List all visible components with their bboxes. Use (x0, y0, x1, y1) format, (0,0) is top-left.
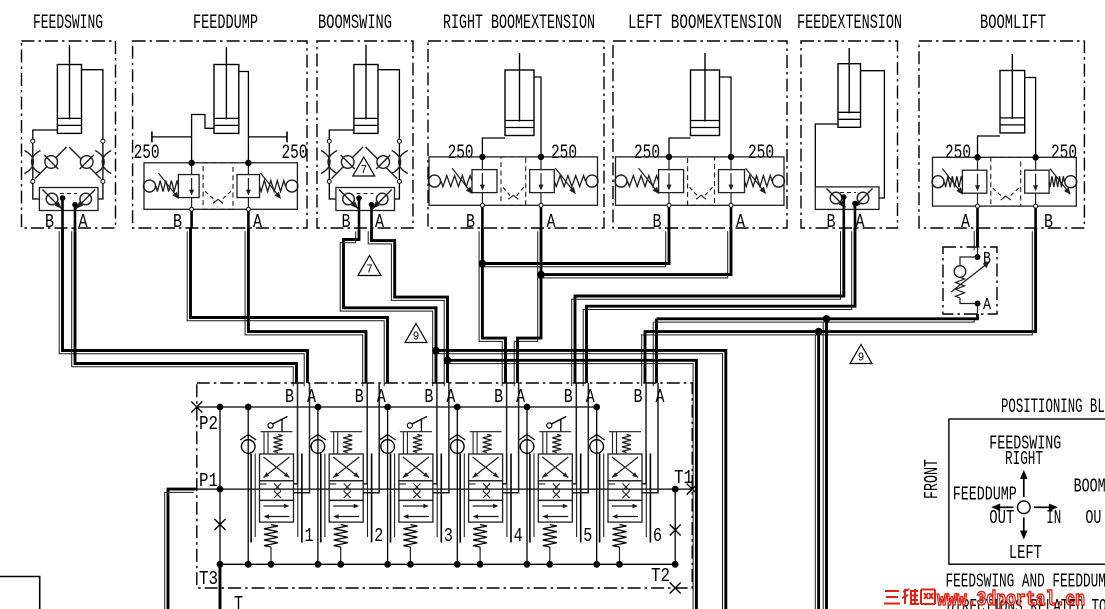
work port line A section 3 (433, 383, 449, 493)
crossed arrows top box section 2 (333, 457, 359, 478)
adjust arrow left LEFT BOOMEXTENSION (639, 168, 658, 192)
warning triangle 9 right (850, 345, 872, 364)
check valve lowering valve (954, 247, 977, 314)
drain line section 3 (409, 547, 411, 564)
relief cartridge right RIGHT BOOMEXTENSION (530, 170, 555, 193)
centering spring top section 4 (483, 435, 492, 453)
side rails section 5 (529, 454, 531, 543)
check valve in box left BOOMSWING (339, 190, 358, 209)
svg-text:T3: T3 (199, 568, 218, 590)
svg-text:FEEDSWING: FEEDSWING (33, 12, 103, 35)
right rail BOOMSWING (398, 143, 400, 180)
wire FEEDSWING B to bank A1 (63, 228, 308, 383)
junction drain section 3 (407, 561, 414, 568)
relief cartridge left LEFT BOOMEXTENSION (659, 170, 684, 193)
wire cylinder head-end to box FEEDEXTENSION (861, 71, 885, 198)
junction right port BOOMLIFT (1032, 154, 1038, 160)
wire branch to sheet2 upper (825, 319, 828, 609)
side rails section 3 (390, 454, 392, 543)
plug X right internal (670, 525, 681, 536)
port stub B RIGHT BOOMEXTENSION (481, 207, 484, 228)
adjust arrow right FEEDDUMP (261, 173, 280, 197)
junction branch upper (823, 315, 831, 323)
wire FEEDEXTENSION B to bank B5 (575, 228, 844, 383)
return spring section 6 (613, 525, 627, 547)
node left port bottom LEFT BOOMEXTENSION (667, 203, 671, 207)
flow arrows bottom box section 2 (333, 505, 357, 507)
junction drain section 6 (616, 561, 623, 568)
pilot cross lines LEFT BOOMEXTENSION (690, 187, 699, 197)
spool body section 4 (469, 454, 503, 481)
wire BOOMSWING B to bank B3 (344, 228, 437, 383)
node lower-right BOOMSWING (397, 179, 401, 183)
shuttle box BOOMSWING (336, 188, 395, 211)
node left port bottom RIGHT BOOMEXTENSION (480, 203, 484, 207)
centering spring top section 6 (622, 435, 631, 453)
block border FEEDDUMP (133, 41, 307, 228)
node left port bottom FEEDDUMP (190, 207, 194, 211)
node right port bottom BOOMLIFT (1034, 204, 1038, 208)
wire cylinder rod-end to left port RIGHT BOOMEXTENSION (482, 138, 505, 157)
orifice bar left FEEDDUMP (152, 136, 192, 138)
svg-text:A: A (586, 386, 595, 408)
svg-text:A: A (375, 211, 384, 233)
spool body section 3 (399, 454, 433, 481)
junction branch lower (815, 328, 823, 336)
svg-text:A: A (253, 211, 262, 233)
svg-text:B: B (424, 386, 433, 408)
port stub B LEFT BOOMEXTENSION (668, 207, 671, 228)
spring left LEFT BOOMEXTENSION (628, 176, 659, 187)
right internal line (674, 489, 676, 564)
junction supply bottom section 2 (315, 561, 322, 568)
arrow up positioning (1023, 476, 1025, 497)
wire FEEDSWING A to bank B1 (75, 228, 297, 383)
lowering control valve box BOOMLIFT (943, 247, 997, 314)
wire boomswing branch lower to bottom edge (448, 360, 697, 609)
junction left port FEEDDUMP (188, 160, 194, 166)
svg-text:250: 250 (634, 142, 660, 165)
junction T3 left (217, 561, 224, 568)
svg-text:A: A (547, 211, 556, 233)
spring arcs left BOOMSWING (321, 151, 337, 174)
svg-text:B: B (564, 386, 573, 408)
work port line B section 4 (503, 383, 507, 484)
port riser left BOOMLIFT (977, 157, 979, 170)
check valve right FEEDDUMP (286, 180, 298, 192)
junction drain section 1 (268, 561, 275, 568)
svg-text:7: 7 (366, 263, 373, 277)
svg-text:3: 3 (444, 525, 453, 547)
svg-text:POSITIONING BLOCK: POSITIONING BLOCK (1001, 396, 1105, 419)
check valve right RIGHT BOOMEXTENSION (586, 175, 598, 187)
wire lower-left node to box FEEDSWING (33, 183, 40, 199)
junction RIGHT/LEFT A (537, 271, 545, 279)
svg-text:P1: P1 (199, 470, 218, 492)
work port line A section 2 (363, 383, 379, 493)
svg-text:BOOML: BOOML (1074, 476, 1105, 498)
pilot check valve right BOOMSWING (366, 147, 398, 179)
crossed arrows top box section 6 (612, 457, 638, 478)
svg-text:250: 250 (945, 142, 971, 165)
junction supply top section 4 (454, 404, 461, 411)
port stub A LEFT BOOMEXTENSION (730, 207, 733, 228)
pressure bus P2 (197, 406, 597, 408)
junction A BOOMSWING (369, 202, 375, 208)
lever actuator section 5 (547, 417, 567, 432)
wire lower-right node to box BOOMSWING (395, 183, 400, 199)
junction supply top section 6 (593, 404, 600, 411)
left rail BOOMSWING (328, 143, 330, 180)
junction supply top section 2 (315, 404, 322, 411)
arrow right positioning (1034, 506, 1049, 508)
junction A FEEDEXTENSION (852, 201, 858, 207)
adjust arrow right BOOMLIFT (1050, 169, 1069, 193)
wire BOOMSWING A to bank A3 (372, 228, 448, 383)
node left BOOMSWING (327, 139, 331, 143)
plug X T1 (687, 484, 698, 495)
svg-text:2: 2 (374, 525, 383, 547)
svg-text:IN: IN (1046, 507, 1061, 529)
pilot dashed line BOOMSWING (357, 193, 374, 195)
left internal line (219, 407, 221, 564)
pilot cross lines FEEDDUMP (205, 191, 216, 201)
svg-text:T1: T1 (674, 467, 693, 489)
wire LEFT BOOMEXTENSION A join (541, 228, 731, 275)
spring right BOOMLIFT (1049, 176, 1064, 187)
svg-text:A: A (856, 211, 865, 233)
port line left FEEDDUMP (191, 198, 193, 208)
node lower-left FEEDSWING (31, 179, 35, 183)
svg-text:T: T (234, 593, 243, 609)
junction left port BOOMLIFT (974, 154, 980, 160)
adjust arrow left RIGHT BOOMEXTENSION (452, 168, 471, 192)
node lower-left BOOMSWING (327, 179, 331, 183)
warning triangle 7 below BOOMSWING (358, 256, 381, 276)
junction supply bottom section 1 (245, 561, 252, 568)
svg-text:A: A (656, 386, 665, 408)
block border FEEDSWING (22, 41, 116, 228)
check valve right LEFT BOOMEXTENSION (773, 175, 785, 187)
relief cartridge right FEEDDUMP (237, 175, 260, 198)
check valve section 2 (310, 435, 326, 454)
block border FEEDEXTENSION (801, 41, 898, 228)
hydraulic cylinder BOOMSWING (354, 45, 378, 134)
relief cartridge left BOOMLIFT (962, 170, 986, 193)
junction boomswing branch upper (432, 347, 440, 355)
junction supply top section 1 (245, 404, 252, 411)
check valve right FEEDEXTENSION (854, 189, 873, 208)
pilot cap section 1 (261, 431, 293, 433)
crossed arrows top box section 1 (264, 457, 290, 478)
orifice bar right FEEDDUMP (248, 136, 287, 138)
pilot dashed line FEEDEXTENSION (840, 192, 856, 194)
work port line B section 1 (294, 383, 298, 484)
work port line B section 2 (363, 383, 367, 484)
flow arrows bottom box section 6 (612, 505, 636, 507)
return spring section 4 (473, 525, 487, 547)
junction B FEEDEXTENSION (841, 194, 847, 200)
centering spring top section 3 (413, 435, 422, 453)
port stub A BOOMLIFT (976, 208, 979, 228)
pilot cap section 4 (470, 431, 502, 433)
crossed arrows top box section 4 (473, 457, 499, 478)
junction left port RIGHT BOOMEXTENSION (479, 154, 485, 160)
right rail FEEDSWING (102, 143, 104, 180)
counterbalance assembly frame RIGHT BOOMEXTENSION (429, 157, 598, 205)
spring right LEFT BOOMEXTENSION (745, 176, 773, 187)
side rails section 2 (320, 454, 322, 543)
bank section 6 supply line (596, 407, 598, 564)
port stub B BOOMLIFT (1034, 208, 1037, 228)
spool body section 2 (329, 454, 363, 481)
junction drain section 5 (546, 561, 553, 568)
port line left RIGHT BOOMEXTENSION (481, 193, 483, 204)
junction A lowering valve (975, 301, 981, 307)
relief cartridge right BOOMLIFT (1025, 170, 1049, 193)
junction RIGHT/LEFT B (479, 260, 487, 268)
port stub B FEEDSWING (61, 198, 64, 228)
node right port bottom FEEDDUMP (246, 207, 250, 211)
svg-text:250: 250 (282, 142, 308, 165)
svg-text:250: 250 (1051, 142, 1077, 165)
junction right port LEFT BOOMEXTENSION (728, 154, 734, 160)
svg-text:1: 1 (305, 525, 314, 547)
pilot cap section 3 (400, 431, 432, 433)
blocked center marks section 4 (483, 484, 490, 491)
check valve right BOOMLIFT (1065, 176, 1077, 188)
wire pump supply P1 (168, 489, 197, 609)
port stub B BOOMSWING (358, 198, 361, 228)
svg-text:A: A (961, 211, 970, 233)
wire cylinder head-end to right port BOOMLIFT (1025, 78, 1036, 158)
spool body section 1 (260, 454, 294, 481)
spring right FEEDDUMP (260, 181, 286, 192)
port stub A FEEDSWING (74, 205, 77, 228)
check valve box FEEDEXTENSION (815, 187, 879, 210)
check valve left BOOMLIFT (932, 176, 944, 188)
wire cylinder head-end to right node BOOMSWING (378, 70, 399, 140)
bank section 5 supply line (526, 407, 528, 564)
svg-text:250: 250 (134, 142, 160, 165)
pilot check valve right FEEDSWING (69, 147, 101, 179)
plug X T2 (670, 583, 681, 594)
wire BOOMLIFT A to bank A6 (976, 228, 979, 247)
svg-text:OUT: OUT (989, 507, 1014, 529)
svg-text:LEFT: LEFT (1009, 542, 1042, 564)
wire boomswing branch upper to bottom edge (436, 350, 726, 609)
wire LEFT BOOMEXTENSION B join (482, 228, 669, 264)
hydraulic cylinder BOOMLIFT (1000, 54, 1025, 133)
return spring section 1 (264, 525, 278, 547)
port riser right BOOMLIFT (1035, 157, 1037, 170)
junction P1 right (672, 486, 679, 493)
bank section 1 supply line (247, 407, 249, 564)
arrow left positioning (999, 506, 1014, 508)
plug X left internal (215, 519, 226, 530)
junction supply bottom section 3 (384, 561, 391, 568)
node left port bottom BOOMLIFT (976, 204, 980, 208)
joystick circle (1018, 501, 1031, 514)
pilot cross lines RIGHT BOOMEXTENSION (503, 187, 511, 197)
junction boomswing branch lower (444, 357, 452, 365)
svg-text:A: A (446, 386, 455, 408)
shuttle box FEEDSWING (39, 188, 98, 211)
port stub B FEEDEXTENSION (842, 197, 845, 228)
bank section 2 supply line (317, 407, 319, 564)
positioning box (949, 419, 1105, 564)
svg-text:FRONT: FRONT (921, 459, 943, 499)
svg-text:7: 7 (361, 163, 368, 177)
work port line A section 5 (572, 383, 588, 493)
drain line section 1 (270, 547, 272, 564)
blocked center marks section 6 (623, 484, 630, 491)
pilot cap section 2 (330, 431, 362, 433)
svg-text:LEFT BOOMEXTENSION: LEFT BOOMEXTENSION (628, 12, 782, 35)
junction supply top section 5 (524, 404, 531, 411)
svg-text:B: B (285, 386, 294, 408)
svg-text:B: B (173, 211, 182, 233)
adjust arrow left BOOMLIFT (942, 169, 961, 193)
svg-text:T2: T2 (651, 565, 670, 587)
wire tank return T (219, 564, 222, 609)
svg-text:250: 250 (748, 142, 774, 165)
svg-text:5: 5 (583, 525, 592, 547)
drain line section 5 (549, 547, 551, 564)
svg-text:B: B (653, 211, 662, 233)
drain line section 6 (619, 547, 621, 564)
junction B FEEDSWING (60, 195, 66, 201)
arrow down positioning (1023, 518, 1025, 534)
flow arrows bottom box section 4 (473, 505, 497, 507)
svg-text:250: 250 (448, 142, 474, 165)
bank section 4 supply line (456, 407, 458, 564)
flow arrows bottom box section 1 (264, 505, 288, 507)
adjust arrow right LEFT BOOMEXTENSION (746, 168, 765, 192)
check valve left RIGHT BOOMEXTENSION (429, 175, 441, 187)
wire BOOMLIFT B to bank B6 (645, 228, 1036, 383)
counterbalance assembly frame BOOMLIFT (933, 157, 1077, 206)
wire cylinder rod-end to left port LEFT BOOMEXTENSION (669, 138, 691, 157)
wire branch to sheet2 lower (817, 332, 820, 609)
left rail FEEDSWING (32, 143, 34, 180)
port riser left RIGHT BOOMEXTENSION (481, 157, 483, 170)
centering spring top section 1 (274, 435, 283, 453)
plug X P2 (191, 402, 202, 413)
work port line B section 6 (642, 383, 646, 484)
check valve in box left FEEDSWING (43, 190, 62, 209)
watermark 3dportal (884, 589, 935, 604)
port line right FEEDDUMP (247, 198, 249, 208)
tank box bottom-left (0, 577, 40, 609)
hydraulic cylinder FEEDEXTENSION (838, 48, 861, 127)
wire cylinder head-end to right port RIGHT BOOMEXTENSION (534, 77, 541, 157)
svg-text:A: A (307, 386, 316, 408)
centering spring top section 2 (343, 435, 352, 453)
spring left RIGHT BOOMEXTENSION (441, 176, 472, 187)
svg-text:P2: P2 (199, 413, 218, 435)
blocked center marks section 5 (553, 484, 560, 491)
pilot check valve left FEEDSWING (35, 147, 67, 179)
wire cylinder rod-end to box FEEDEXTENSION (815, 124, 838, 187)
hydraulic cylinder FEEDSWING (57, 45, 81, 134)
spring arcs right FEEDSWING (95, 151, 111, 174)
lever actuator section 1 (268, 417, 288, 432)
pilot cap section 5 (539, 431, 571, 433)
junction right port FEEDDUMP (245, 160, 251, 166)
port stub A BOOMSWING (370, 205, 373, 228)
warning triangle 7 BOOMSWING (353, 157, 375, 176)
svg-text:9: 9 (413, 330, 420, 344)
svg-text:BOOMSWING: BOOMSWING (318, 12, 392, 35)
check valve left FEEDEXTENSION (827, 189, 846, 208)
port line right RIGHT BOOMEXTENSION (540, 193, 542, 204)
svg-text:FEEDEXTENSION: FEEDEXTENSION (797, 12, 902, 35)
hydraulic cylinder RIGHT BOOMEXTENSION (505, 53, 534, 136)
counterbalance assembly frame LEFT BOOMEXTENSION (616, 157, 785, 205)
node lower-right FEEDSWING (101, 179, 105, 183)
relief cartridge left FEEDDUMP (178, 175, 199, 198)
spool body section 6 (608, 454, 642, 481)
svg-text:A: A (79, 211, 88, 233)
flow arrows bottom box section 5 (542, 505, 566, 507)
junction B BOOMSWING (356, 195, 362, 201)
svg-text:B: B (1044, 211, 1053, 233)
svg-text:FEEDDUMP: FEEDDUMP (193, 12, 258, 35)
junction A FEEDSWING (72, 202, 78, 208)
wire FEEDEXTENSION A to bank A5 (587, 228, 856, 383)
svg-text:9: 9 (858, 351, 865, 365)
svg-text:A: A (983, 296, 992, 315)
side rails section 4 (459, 454, 461, 543)
port line left BOOMLIFT (977, 193, 979, 204)
junction P2 left (217, 404, 224, 411)
node right port bottom RIGHT BOOMEXTENSION (539, 203, 543, 207)
node right FEEDSWING (101, 139, 105, 143)
junction T3 right (672, 561, 679, 568)
drain line section 4 (479, 547, 481, 564)
centering spring top section 5 (552, 435, 561, 453)
port stub A FEEDEXTENSION (854, 204, 857, 229)
return spring section 5 (543, 525, 557, 547)
svg-text:250: 250 (551, 142, 577, 165)
tank bus T3 (220, 563, 675, 565)
svg-text:B: B (466, 211, 475, 233)
port riser left FEEDDUMP (191, 163, 193, 175)
wire RIGHT BOOMEXTENSION B to bank B4 (482, 228, 505, 383)
work port line A section 1 (294, 383, 310, 493)
svg-text:4: 4 (514, 525, 523, 547)
pilot dashed line FEEDSWING (60, 193, 77, 195)
check valve left FEEDDUMP (144, 180, 156, 192)
block border BOOMLIFT (919, 41, 1084, 228)
spring right RIGHT BOOMEXTENSION (554, 176, 585, 187)
spring left BOOMLIFT (945, 176, 963, 187)
check valve section 6 (589, 435, 605, 454)
svg-text:BOOMLIFT: BOOMLIFT (980, 12, 1046, 35)
adjust arrow left FEEDDUMP (158, 173, 177, 197)
pilot dashed box FEEDDUMP (203, 163, 233, 210)
port line left LEFT BOOMEXTENSION (668, 193, 670, 204)
spring left FEEDDUMP (156, 181, 178, 192)
side rails section 6 (599, 454, 601, 543)
relief cartridge right LEFT BOOMEXTENSION (719, 170, 745, 193)
svg-text:B: B (45, 211, 54, 233)
counterbalance assembly frame FEEDDUMP (144, 163, 297, 210)
work port line B section 5 (572, 383, 576, 484)
junction supply top section 3 (384, 404, 391, 411)
crossed arrows top box section 3 (403, 457, 429, 478)
